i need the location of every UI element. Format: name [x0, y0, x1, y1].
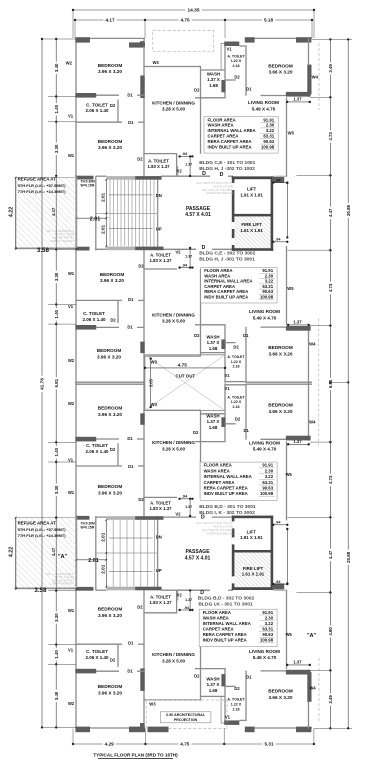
core south light bar [106, 516, 135, 520]
duct right of lift top line [273, 589, 287, 591]
svg-text:LIFT: LIFT [247, 529, 257, 534]
dim .94 a-toilet-3 [180, 498, 193, 500]
svg-text:KITCHEN / DINNING: KITCHEN / DINNING [152, 100, 195, 105]
column bedroom-1 sw [75, 437, 96, 442]
svg-text:BEDROOM: BEDROOM [98, 484, 123, 489]
svg-text:2.01: 2.01 [101, 564, 106, 573]
svg-text:90.63: 90.63 [262, 289, 273, 294]
lift west door notches [232, 183, 235, 190]
core south row thin [96, 248, 135, 250]
wall: kitchen south / a-toilet north [143, 153, 177, 155]
svg-text:2.30: 2.30 [265, 615, 274, 620]
svg-text:1.37 X: 1.37 X [207, 77, 220, 82]
svg-text:C. TOILET: C. TOILET [86, 443, 108, 448]
svg-text:D2: D2 [110, 318, 116, 323]
svg-text:5.49 X 4.70: 5.49 X 4.70 [253, 315, 277, 320]
wall: bedroom-E south thin [261, 670, 288, 672]
refuge dim 3.58 [16, 588, 77, 590]
svg-text:3.40: 3.40 [54, 63, 59, 72]
svg-text:1.37: 1.37 [185, 505, 192, 509]
svg-text:V1: V1 [68, 647, 74, 652]
svg-text:FLOOR AREA: FLOOR AREA [203, 610, 231, 615]
svg-text:KITCHEN / DINNING: KITCHEN / DINNING [152, 652, 195, 657]
wall: bedroom/kitchen divider [143, 246, 145, 384]
wall: east outer (bedroom) [308, 669, 310, 728]
wall: right wing north [245, 727, 312, 729]
area table 1 [204, 117, 278, 153]
svg-text:BLDG C,E - 302 TO 3002: BLDG C,E - 302 TO 3002 [199, 250, 255, 256]
wall: wash south [195, 441, 225, 443]
core south row thin [96, 516, 135, 518]
duct line vertical [220, 43, 222, 70]
svg-text:91.91: 91.91 [262, 463, 273, 468]
svg-text:100.98: 100.98 [260, 491, 274, 496]
svg-text:RERA CARPET AREA: RERA CARPET AREA [203, 632, 247, 637]
svg-text:V1: V1 [225, 714, 231, 719]
svg-text:A. TOILET: A. TOILET [227, 395, 245, 399]
refuge dim 4.22 [15, 178, 17, 248]
wall: c-toilet south (seg b) [138, 121, 145, 123]
duct line top [221, 722, 225, 724]
core north dark bar [135, 176, 162, 180]
svg-text:INTERNAL WALL AREA: INTERNAL WALL AREA [203, 621, 251, 626]
wall: bedroom-1 south (seg b) [137, 438, 145, 440]
duct line vertical [220, 696, 222, 723]
svg-text:1.37: 1.37 [293, 320, 302, 325]
wall: wash north [201, 352, 226, 354]
svg-text:DN: DN [156, 535, 162, 540]
column bedroom-E east [307, 65, 311, 95]
refuge dim 4.22 [15, 518, 17, 588]
svg-text:WASH AREA: WASH AREA [204, 273, 230, 278]
svg-text:.94: .94 [275, 521, 281, 525]
column bedroom-E south [286, 436, 311, 441]
svg-text:3.96 X 3.20: 3.96 X 3.20 [98, 691, 122, 696]
svg-text:D2: D2 [193, 430, 199, 435]
wall: bedroom-E south thin [261, 438, 288, 440]
a-toilet V2 window mark [177, 166, 179, 176]
left outer connectors [42, 38, 76, 40]
wall: left wing north wall [75, 37, 145, 39]
svg-text:D2: D2 [110, 447, 116, 452]
svg-text:4.47: 4.47 [51, 547, 56, 556]
wall: a-toilet V1 south [224, 342, 235, 344]
column kitchen nw [140, 723, 145, 728]
svg-text:3.96 X 3.20: 3.96 X 3.20 [98, 613, 122, 618]
svg-text:BLDG H, J -301 TO 3001: BLDG H, J -301 TO 3001 [199, 257, 255, 263]
svg-text:.94: .94 [182, 495, 188, 499]
svg-text:W4: W4 [312, 75, 319, 80]
svg-text:KITCHEN / DINNING: KITCHEN / DINNING [152, 440, 195, 445]
column wash east [221, 339, 225, 349]
svg-text:W2: W2 [68, 401, 75, 406]
svg-text:C. TOILET: C. TOILET [86, 102, 108, 107]
svg-text:D2: D2 [138, 264, 144, 269]
svg-text:BEDROOM: BEDROOM [98, 405, 123, 410]
svg-text:RERA CARPET AREA: RERA CARPET AREA [204, 289, 248, 294]
wall: a-toilet V1 north bar [224, 720, 239, 725]
dim .94 duct top-1 [273, 182, 287, 184]
svg-text:5.49 X 4.70: 5.49 X 4.70 [252, 106, 276, 111]
wall: a-toilet V1 east [245, 671, 247, 721]
svg-text:.94: .94 [184, 606, 190, 610]
wall: wash east [224, 385, 226, 442]
stair treads [105, 180, 107, 247]
svg-text:90.63: 90.63 [262, 632, 273, 637]
svg-text:1.22 X: 1.22 X [231, 360, 242, 364]
svg-text:100.98: 100.98 [260, 638, 274, 643]
svg-text:4.47: 4.47 [328, 550, 333, 559]
svg-text:1.37: 1.37 [185, 255, 192, 259]
svg-text:1.37 X: 1.37 X [207, 682, 220, 687]
svg-text:20.88: 20.88 [346, 551, 351, 563]
svg-text:2.01: 2.01 [88, 558, 99, 564]
wall: wash north [201, 695, 226, 697]
duct east line [286, 529, 288, 583]
wall: right wing north [245, 383, 312, 385]
svg-text:W4: W4 [309, 686, 316, 691]
svg-text:TYPICAL FLOOR PLAN (3RD TO 16T: TYPICAL FLOOR PLAN (3RD TO 16TH) [93, 753, 178, 758]
wall: west outer wall [75, 590, 77, 728]
svg-text:D: D [201, 514, 205, 520]
cut out diagonals [145, 355, 225, 411]
column bedroom-E east [307, 672, 311, 702]
area table 2 [201, 268, 277, 303]
column bedroom-1 sw [75, 669, 96, 674]
wall: c-toilet east [117, 300, 119, 323]
wall: left wing north wall [75, 727, 145, 729]
svg-text:BLDG B,D - 301 TO 3001: BLDG B,D - 301 TO 3001 [199, 504, 256, 510]
svg-text:2.30: 2.30 [265, 273, 274, 278]
svg-text:3.28 X 5.00: 3.28 X 5.00 [162, 107, 186, 112]
wall: c-toilet east [117, 443, 119, 466]
svg-text:0.90 ARCHITECTURAL: 0.90 ARCHITECTURAL [166, 713, 205, 717]
svg-text:2.06 X 1.40: 2.06 X 1.40 [82, 317, 106, 322]
svg-text:BEDROOM: BEDROOM [98, 139, 123, 144]
svg-text:91.91: 91.91 [263, 117, 274, 122]
column left-wing mid [129, 42, 145, 47]
svg-text:A. TOILET: A. TOILET [150, 500, 171, 505]
svg-text:FIRE LIFT: FIRE LIFT [243, 566, 264, 571]
svg-text:D1: D1 [128, 464, 134, 469]
stair east wall [157, 516, 159, 590]
wall: left wing north wall [75, 383, 145, 385]
svg-text:DN: DN [156, 193, 162, 198]
wall: bedroom/kitchen divider [143, 590, 145, 728]
svg-text:4.75: 4.75 [180, 742, 190, 747]
svg-text:D2: D2 [235, 416, 241, 421]
wall: east outer (bedroom) [308, 326, 310, 385]
fire lift hatch [234, 553, 270, 588]
svg-text:BLDG B,D - 302 TO 3002: BLDG B,D - 302 TO 3002 [198, 595, 255, 601]
wall: living east W5 [286, 98, 288, 177]
svg-text:V2: V2 [175, 512, 181, 517]
duct column [272, 583, 284, 589]
svg-text:V2: V2 [175, 250, 181, 255]
bottom extension lines [72, 729, 74, 745]
column left-wing corner [75, 37, 90, 42]
dashed line right wing bottom [318, 658, 320, 723]
svg-text:D: D [202, 245, 206, 251]
wall: kitchen north W3 [143, 66, 201, 68]
top extension lines [72, 10, 74, 38]
svg-text:W2: W2 [66, 61, 73, 66]
dashed line right wing top [318, 43, 320, 110]
svg-text:BEDROOM: BEDROOM [97, 348, 122, 353]
svg-text:2.01: 2.01 [101, 192, 106, 201]
svg-text:3.05: 3.05 [149, 378, 154, 387]
svg-text:C. TOILET: C. TOILET [83, 311, 105, 316]
architectural projection note box [160, 712, 211, 723]
svg-text:2.0M HT PARAPET: 2.0M HT PARAPET [50, 239, 75, 243]
svg-text:CARPET AREA: CARPET AREA [203, 627, 234, 632]
svg-text:BEDROOM: BEDROOM [98, 63, 123, 68]
svg-text:FIRE LIFT: FIRE LIFT [241, 222, 262, 227]
svg-text:3.58: 3.58 [37, 247, 50, 254]
svg-text:63.31: 63.31 [262, 480, 273, 485]
column right-wing nw [245, 727, 255, 733]
dim .94 a-toilet-1 [180, 155, 193, 157]
dim 1.37 right wing 3 [288, 443, 309, 445]
svg-text:BEDROOM: BEDROOM [268, 63, 293, 68]
dim .94 duct bottom-1 [273, 524, 287, 526]
area table 3 [200, 462, 277, 500]
svg-text:D2: D2 [233, 345, 239, 350]
wall: a-toilet V1 north thin [239, 719, 246, 721]
svg-text:4.73: 4.73 [328, 283, 333, 292]
svg-text:FLOOR AREA: FLOOR AREA [208, 117, 236, 122]
column kitchen west [140, 342, 144, 354]
column wash east [221, 80, 225, 92]
wall: left wing north wall [75, 381, 145, 383]
svg-text:1.83 X 1.37: 1.83 X 1.37 [150, 506, 173, 511]
svg-text:3.28 X 5.00: 3.28 X 5.00 [162, 446, 186, 451]
wall: a-toilet V1 north bar [224, 42, 239, 47]
svg-text:4.29: 4.29 [105, 742, 115, 747]
right inner dim line [329, 39, 331, 728]
column kitchen nw [140, 41, 145, 46]
west outer wall at core [75, 176, 77, 250]
svg-text:20.88: 20.88 [346, 204, 351, 216]
svg-text:1.37: 1.37 [185, 598, 192, 602]
refuge area hatched box [16, 178, 77, 248]
core north dark bar [135, 587, 162, 591]
core north row thin [96, 175, 107, 177]
column bedroom-E south [286, 326, 311, 331]
lift shaft walls [232, 176, 273, 179]
wall: living east W5 [286, 441, 288, 520]
wall: c-toilet south (seg b) [138, 643, 145, 645]
svg-text:OVERHANG BELOW: OVERHANG BELOW [206, 531, 233, 535]
svg-text:3.96 X 3.20: 3.96 X 3.20 [98, 412, 122, 417]
svg-text:3.28 X 5.00: 3.28 X 5.00 [162, 319, 186, 324]
svg-text:RERA CARPET AREA: RERA CARPET AREA [204, 486, 248, 491]
wall: a-toilet V1 north bar [224, 384, 246, 386]
stair walk line UP [109, 537, 153, 539]
svg-text:A. TOILET: A. TOILET [227, 698, 245, 702]
svg-text:D1: D1 [128, 120, 134, 125]
stair west wall [95, 516, 97, 590]
svg-text:2.06 X 1.40: 2.06 X 1.40 [85, 108, 109, 113]
svg-text:D1: D1 [128, 641, 134, 646]
svg-text:1.68: 1.68 [209, 425, 218, 430]
svg-text:1.37 X: 1.37 X [207, 340, 220, 345]
column west of stair north [75, 587, 93, 591]
wall: c-toilet south (seg a) [75, 121, 122, 123]
dashed line right wing [318, 319, 320, 446]
column bedroom-E south [286, 670, 311, 675]
stair walk line UP [109, 227, 153, 229]
wall: a-toilet V1 north bar [224, 381, 246, 383]
svg-text:6.81: 6.81 [328, 379, 333, 388]
svg-text:W5: W5 [285, 472, 292, 477]
dim .94 duct top-2 [273, 241, 287, 243]
stair landing line [96, 552, 157, 554]
wall: c-toilet east [117, 100, 119, 123]
svg-text:2.18: 2.18 [233, 365, 240, 369]
svg-text:3.30: 3.30 [54, 485, 59, 494]
svg-text:3.96 X 3.20: 3.96 X 3.20 [98, 491, 122, 496]
right outer dim 20.88 x2 [347, 39, 349, 728]
svg-text:1.68: 1.68 [209, 346, 218, 351]
svg-text:W3: W3 [152, 60, 159, 65]
wall: c-toilet south (seg a) [75, 299, 122, 301]
svg-text:A. TOILET: A. TOILET [148, 158, 169, 163]
dim .94 duct bottom-2 [273, 583, 287, 585]
svg-text:PASSAGE: PASSAGE [185, 549, 210, 555]
svg-text:A. TOILET: A. TOILET [227, 355, 245, 359]
wall: a-toilet V1 east [245, 46, 247, 96]
svg-text:D: D [220, 172, 224, 178]
cut out box [145, 355, 225, 411]
duct line top [221, 42, 225, 44]
column west of stair south [75, 247, 89, 251]
area table 4 [199, 609, 277, 646]
wall: c-toilet east [117, 644, 119, 667]
svg-text:D1: D1 [246, 674, 252, 679]
wall: kitchen north W3 [143, 409, 201, 411]
svg-text:INTERNAL WALL AREA: INTERNAL WALL AREA [204, 474, 252, 479]
svg-text:1.22 X: 1.22 X [231, 400, 242, 404]
svg-text:4.75: 4.75 [180, 18, 190, 23]
svg-text:WASH: WASH [206, 413, 219, 418]
wall: bedroom-1 south (seg b) [137, 94, 145, 96]
wall: kitchen north W3 [143, 355, 201, 357]
a-toilet stair-side box [176, 590, 178, 612]
svg-text:4.47: 4.47 [328, 208, 333, 217]
lift shaft walls [232, 587, 273, 590]
svg-text:W1: W1 [68, 271, 75, 276]
svg-text:1.37: 1.37 [293, 660, 302, 665]
svg-text:D2: D2 [234, 75, 240, 80]
svg-text:1.37: 1.37 [185, 163, 192, 167]
svg-text:D2: D2 [137, 605, 143, 610]
svg-text:3.22: 3.22 [265, 621, 274, 626]
wall: east outer (bedroom) [308, 38, 310, 97]
svg-text:91.91: 91.91 [262, 610, 273, 615]
wall: wash south [195, 324, 225, 326]
duct column [272, 177, 284, 183]
refuge area hatched box [16, 518, 77, 588]
column wash east [221, 417, 225, 427]
svg-text:CARPET AREA: CARPET AREA [204, 480, 235, 485]
svg-text:V2: V2 [177, 592, 183, 597]
svg-text:D1: D1 [244, 428, 250, 433]
svg-text:2.01: 2.01 [101, 224, 106, 233]
svg-text:W2: W2 [68, 358, 75, 363]
svg-text:BEDROOM: BEDROOM [268, 403, 293, 408]
svg-text:WASH AREA: WASH AREA [203, 615, 229, 620]
column left-wing mid [129, 727, 145, 733]
wall: a-toilet V1 south [224, 423, 235, 425]
column right-wing ne [296, 727, 311, 733]
svg-text:5.49 X 4.70: 5.49 X 4.70 [253, 655, 277, 660]
svg-text:W4: W4 [309, 420, 316, 425]
dashed projection bottom [146, 700, 227, 729]
svg-text:UP: UP [156, 226, 162, 231]
left inner connectors [48, 96, 76, 98]
dim 1.37 right wing 2 [288, 324, 309, 326]
wall: c-toilet south (seg b) [138, 465, 145, 467]
wall: living east W5 [286, 590, 288, 669]
svg-text:V1: V1 [68, 458, 74, 463]
svg-text:3.49: 3.49 [328, 695, 333, 704]
svg-text:BLDG C,E - 301 TO 1001: BLDG C,E - 301 TO 1001 [199, 160, 255, 166]
svg-text:INDV BUILT UP AREA: INDV BUILT UP AREA [204, 491, 248, 496]
svg-text:5.31: 5.31 [264, 742, 274, 747]
svg-text:W=0.15M: W=0.15M [81, 525, 95, 529]
svg-text:OVERHANG BELOW: OVERHANG BELOW [206, 191, 233, 195]
svg-text:.94: .94 [182, 152, 188, 156]
svg-text:BEDROOM: BEDROOM [100, 272, 125, 277]
svg-text:REFUGE AREA AT: REFUGE AREA AT [18, 177, 57, 182]
svg-text:3.66 X 3.20: 3.66 X 3.20 [269, 409, 293, 414]
svg-text:INDV BUILT UP AREA: INDV BUILT UP AREA [204, 294, 248, 299]
wall: bedroom-E south thin [261, 326, 288, 328]
wall: kitchen east [200, 410, 202, 497]
svg-text:D2: D2 [194, 88, 200, 93]
core north row thin [96, 589, 107, 591]
svg-text:LIVING ROOM: LIVING ROOM [249, 440, 280, 445]
svg-text:V2: V2 [177, 169, 183, 174]
svg-text:BLDG I, K - 302 TO 3002: BLDG I, K - 302 TO 3002 [199, 510, 255, 516]
svg-text:CARPET AREA: CARPET AREA [208, 134, 239, 139]
svg-text:V1: V1 [68, 114, 74, 119]
svg-text:5.49 X 4.70: 5.49 X 4.70 [253, 447, 277, 452]
svg-text:1.83 X 1.37: 1.83 X 1.37 [148, 164, 171, 169]
a-toilet stair-side box [176, 154, 178, 176]
svg-text:1.40: 1.40 [54, 309, 59, 318]
core south dark bar [135, 247, 163, 251]
svg-text:C. TOILET: C. TOILET [86, 649, 108, 654]
wall: a-toilet V1 south [224, 685, 235, 687]
stair walk line DN [109, 571, 153, 573]
svg-text:W1: W1 [68, 608, 75, 613]
wall: a-toilet V1 east [245, 385, 247, 440]
top overall dim 14.35 [73, 9, 314, 11]
wall: wash south [195, 668, 225, 670]
svg-text:BEDROOM: BEDROOM [98, 607, 123, 612]
svg-text:90.63: 90.63 [263, 139, 274, 144]
svg-text:D2: D2 [110, 658, 116, 663]
core south dark bar [135, 516, 163, 520]
wall: bedroom-1 south (seg b) [137, 670, 145, 672]
column right-wing ne [296, 37, 311, 42]
svg-text:6.81: 6.81 [54, 378, 59, 387]
column wash east [221, 674, 225, 686]
svg-text:63.31: 63.31 [263, 134, 274, 139]
svg-text:100.98: 100.98 [261, 144, 275, 149]
